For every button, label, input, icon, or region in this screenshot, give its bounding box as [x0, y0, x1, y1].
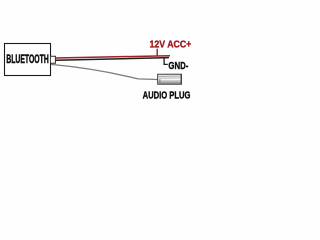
svg-text:12V ACC+: 12V ACC+: [150, 38, 192, 50]
leader tick for 12V ACC+: [156, 49, 158, 57]
connector plug J1: [51, 56, 56, 63]
audio cable wire: [51, 64, 158, 79]
label AUDIO PLUG: [143, 89, 191, 100]
barrel shading line 1: [159, 75, 181, 77]
barrel lower band: [159, 80, 181, 82]
barrel right end cap: [180, 75, 182, 84]
leader for GND-: [164, 58, 168, 64]
svg-text:AUDIO PLUG: AUDIO PLUG: [143, 89, 191, 100]
barrel shading line 2: [159, 77, 181, 79]
svg-text:GND-: GND-: [168, 60, 188, 71]
svg-text:BLUETOOTH: BLUETOOTH: [6, 53, 49, 66]
label BLUETOOTH: [6, 53, 49, 66]
barrel inner left notch: [159, 79, 161, 83]
label 12V ACC+: [150, 38, 192, 50]
audio plug barrel: [158, 74, 182, 84]
barrel lower band edge: [159, 82, 181, 84]
label GND-: [168, 60, 188, 71]
wire 12V (red): [56, 56, 170, 58]
wire GND (black): [56, 58, 169, 61]
bluetooth module box U1: [5, 44, 51, 76]
